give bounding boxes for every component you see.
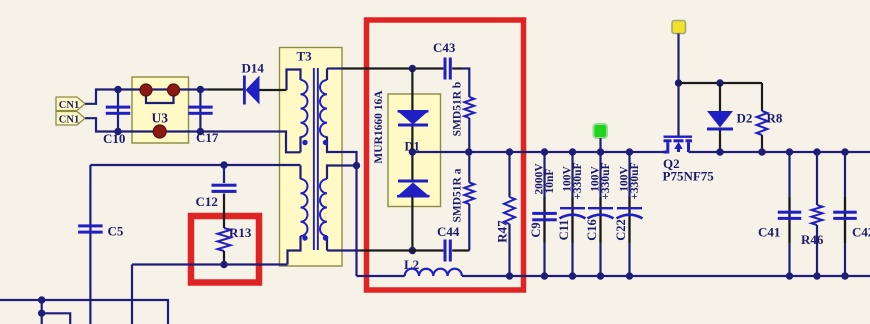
wire mid rail <box>412 151 663 153</box>
capacitor C12 <box>212 184 237 187</box>
U3 component box <box>132 77 189 143</box>
svg-text:+330uF: +330uF <box>572 162 584 199</box>
T3 core lines <box>313 68 315 250</box>
node C11 top <box>569 148 576 155</box>
diode D1 box <box>388 94 441 207</box>
svg-text:C43: C43 <box>433 40 456 55</box>
T3 dot lower-left <box>302 235 307 240</box>
U3 pin 3 <box>153 125 166 138</box>
node C17 top <box>197 86 204 93</box>
wire C22 branch <box>628 152 630 276</box>
capacitor C5 <box>78 224 103 227</box>
wire C10 branch <box>117 90 119 132</box>
T3 secondary lower bottom stub <box>326 236 328 251</box>
wire center tap drop <box>355 166 357 277</box>
node D1 bottom <box>409 247 416 254</box>
T3 primary lower bottom path <box>288 236 301 265</box>
T3 dot upper-right <box>323 140 328 145</box>
svg-text:P75NF75: P75NF75 <box>663 169 715 184</box>
node C9 top <box>541 148 548 155</box>
wire R8 bottom lead <box>761 135 763 152</box>
node C16 top <box>597 148 604 155</box>
capacitor C42 <box>833 211 857 214</box>
wire R13 bottom horizontal <box>132 263 288 265</box>
wire top-left to D14 <box>208 88 244 90</box>
node D1 mid rail <box>409 148 416 155</box>
node R13 bottom <box>220 261 227 268</box>
svg-text:R46: R46 <box>801 232 824 247</box>
wire C9 lead <box>543 197 545 243</box>
wire D2 top lead <box>719 83 721 111</box>
node R46 top <box>813 148 820 155</box>
wire C16 branch <box>599 152 601 276</box>
svg-text:C5: C5 <box>108 224 124 239</box>
wire C5 vertical <box>89 165 91 324</box>
wire green marker stub <box>599 138 601 152</box>
resistor R13 <box>218 228 231 251</box>
transistor Q2 channel segments <box>664 139 672 142</box>
wire bottom-left branch <box>42 313 70 324</box>
wire R13 bottom lead <box>223 251 225 265</box>
T3 dot upper-left <box>302 140 307 145</box>
T3 secondary upper bottom path <box>327 137 357 166</box>
Q2 substrate arrow <box>677 146 680 152</box>
U3 pin 1 <box>140 84 152 96</box>
svg-text:C9: C9 <box>529 222 543 237</box>
svg-text:C11: C11 <box>557 220 571 241</box>
svg-text:R47: R47 <box>495 220 510 243</box>
node D2 top <box>716 79 723 86</box>
node C17 bottom <box>197 128 204 135</box>
port CN1 lower <box>56 112 85 126</box>
svg-text:MUR1660 16A: MUR1660 16A <box>373 90 385 164</box>
inductor L2 <box>405 269 462 276</box>
capacitor C22 <box>617 207 642 209</box>
svg-text:C10: C10 <box>103 131 125 146</box>
wire yellow marker to Q2 drain <box>677 34 679 137</box>
wire CN1 upper to top rail <box>85 90 208 104</box>
svg-text:U3: U3 <box>152 111 169 126</box>
node Q2 drain branch <box>675 79 682 86</box>
svg-text:C16: C16 <box>585 219 599 241</box>
wire lower row black segment <box>360 249 443 251</box>
node C10 bottom <box>114 128 121 135</box>
diode D2 body <box>707 111 733 128</box>
wire mid rail right of Q2 <box>689 151 870 153</box>
diode D1 lower body <box>397 183 430 197</box>
T3 primary upper bottom stub <box>299 137 301 153</box>
svg-text:C44: C44 <box>437 224 460 239</box>
T3 primary upper winding <box>301 80 308 137</box>
node C10 top <box>114 86 121 93</box>
diode D2 cathode bar <box>707 128 733 131</box>
wire D14 elbow into T3 <box>287 70 301 91</box>
resistor R46 <box>812 205 823 225</box>
node D1 top <box>409 65 416 72</box>
diode D14 cathode bar <box>243 76 246 105</box>
diode D14 body <box>246 76 260 105</box>
node R47 bottom <box>506 272 513 279</box>
wire C12 to R13 <box>223 194 225 229</box>
svg-text:R13: R13 <box>229 225 252 240</box>
wire bottom long horizontal <box>0 300 168 324</box>
svg-text:D14: D14 <box>242 61 265 76</box>
port CN1 upper <box>56 97 85 111</box>
node bottom-left junction <box>38 296 45 303</box>
node C41 top <box>786 148 793 155</box>
capacitor C10 <box>106 106 131 109</box>
node T3 center tap <box>353 162 360 169</box>
wire left drop from R13 wire <box>131 265 133 324</box>
svg-text:+330uF: +330uF <box>600 162 612 199</box>
wire C16 lead <box>599 197 601 243</box>
T3 dot lower-right <box>323 235 328 240</box>
wire D2 bottom lead <box>719 131 721 153</box>
wire C9 branch <box>543 152 545 276</box>
node snubber mid <box>465 148 472 155</box>
node C12 top <box>220 161 227 168</box>
wire C5-C12 horizontal <box>90 164 300 166</box>
node bottom-left lower junction <box>38 310 45 317</box>
wire bottom rail mid <box>462 275 870 277</box>
diode D1 lower cathode bar <box>398 180 428 183</box>
svg-text:SMD51R b: SMD51R b <box>452 82 464 137</box>
diode D1 upper body <box>398 111 429 125</box>
yellow net marker <box>672 21 686 34</box>
wire C11 lead <box>571 197 573 243</box>
diode D1 upper cathode bar <box>398 124 428 127</box>
wire bottom-left vertical <box>41 300 43 324</box>
wire C42 branch <box>844 152 846 276</box>
wire C42 lead <box>844 197 846 243</box>
svg-text:C17: C17 <box>196 130 219 145</box>
annotation red box small around R13 <box>191 216 259 283</box>
resistor SMD51R b <box>464 97 474 118</box>
wire T3 top to C43 <box>327 67 343 69</box>
svg-text:SMD51R a: SMD51R a <box>452 168 464 222</box>
svg-text:R8: R8 <box>767 111 783 126</box>
node D2 bottom <box>716 148 723 155</box>
wire C12 branch upper <box>223 165 225 183</box>
wire top black segment <box>343 67 443 69</box>
svg-text:C41: C41 <box>758 225 780 240</box>
node C16 bottom <box>597 272 604 279</box>
wire snubber-a to C44 <box>468 204 470 251</box>
wire R47 top lead <box>508 152 510 197</box>
U3 winding jog <box>146 91 174 103</box>
T3 secondary lower winding <box>320 179 327 236</box>
wire C17 branch <box>199 90 201 132</box>
svg-text:C12: C12 <box>196 194 218 209</box>
wire R46 branch top <box>816 152 818 205</box>
wire C41 branch <box>788 152 790 276</box>
node C11 bottom <box>569 272 576 279</box>
capacitor C9 <box>532 212 557 215</box>
wire D1 mid lead <box>411 127 413 180</box>
resistor R8 <box>757 111 768 135</box>
U3 pin 2 <box>168 84 180 96</box>
wire D1 top lead <box>411 69 413 112</box>
capacitor C11 <box>560 207 585 209</box>
svg-text:D2: D2 <box>737 111 753 126</box>
Q2 source leg <box>664 142 668 152</box>
node R46 bottom <box>813 272 820 279</box>
node C9 bottom <box>541 272 548 279</box>
node C42 top <box>841 148 848 155</box>
wire C11 branch <box>571 152 573 276</box>
svg-text:T3: T3 <box>297 49 313 64</box>
transformer T3 box <box>280 48 343 267</box>
wire C41 lead <box>788 197 790 243</box>
resistor R47 <box>504 197 515 224</box>
capacitor C16 <box>588 207 613 209</box>
node C41 bottom <box>786 272 793 279</box>
wire C44 right lead <box>452 249 469 251</box>
capacitor C43 <box>444 58 447 80</box>
wire T3 primary upper-left bottom jog <box>280 132 301 153</box>
T3 primary lower winding <box>301 179 308 236</box>
wire Q2 top branch <box>679 82 763 84</box>
capacitor C41 <box>778 211 802 214</box>
wire D14 to T3 <box>260 89 287 91</box>
wire D1 bottom lead <box>411 197 413 251</box>
wire C22 lead <box>628 197 630 243</box>
svg-text:10nF: 10nF <box>544 169 556 194</box>
node R8 bottom <box>758 148 765 155</box>
wire R47 bottom lead <box>508 224 510 276</box>
T3 primary lower top stub <box>299 166 301 180</box>
Q2 drain leg <box>687 142 690 152</box>
annotation red box large <box>367 20 524 290</box>
node C42 bottom <box>841 272 848 279</box>
wire R8 top lead <box>761 83 763 111</box>
green net marker <box>594 124 608 138</box>
wire snubber-b lower lead <box>468 118 470 152</box>
node C22 bottom <box>626 272 633 279</box>
node C22 top <box>626 148 633 155</box>
svg-text:C42: C42 <box>852 225 870 240</box>
svg-text:C22: C22 <box>614 219 628 241</box>
wire CN1 lower elbow <box>85 118 280 131</box>
capacitor C17 <box>188 106 213 109</box>
wire R46 branch bottom <box>816 225 818 276</box>
resistor SMD51R a <box>464 183 474 205</box>
wire C43 right lead <box>452 67 462 69</box>
wire snubber-a upper lead <box>468 152 470 183</box>
wire C43 to snubber corner <box>462 69 469 98</box>
T3 secondary upper top stub <box>326 69 328 81</box>
wire bottom rail left <box>357 275 405 277</box>
transistor Q2 gate plate <box>664 136 693 138</box>
T3 secondary lower top path <box>327 166 357 180</box>
wire T3 lower secondary to C44 row <box>327 249 360 251</box>
capacitor C44 <box>444 240 447 262</box>
svg-text:+330uF: +330uF <box>629 162 641 199</box>
node R47 top <box>506 148 513 155</box>
T3 secondary upper winding <box>320 80 327 137</box>
svg-text:CN1: CN1 <box>59 114 79 125</box>
svg-text:CN1: CN1 <box>59 100 79 111</box>
